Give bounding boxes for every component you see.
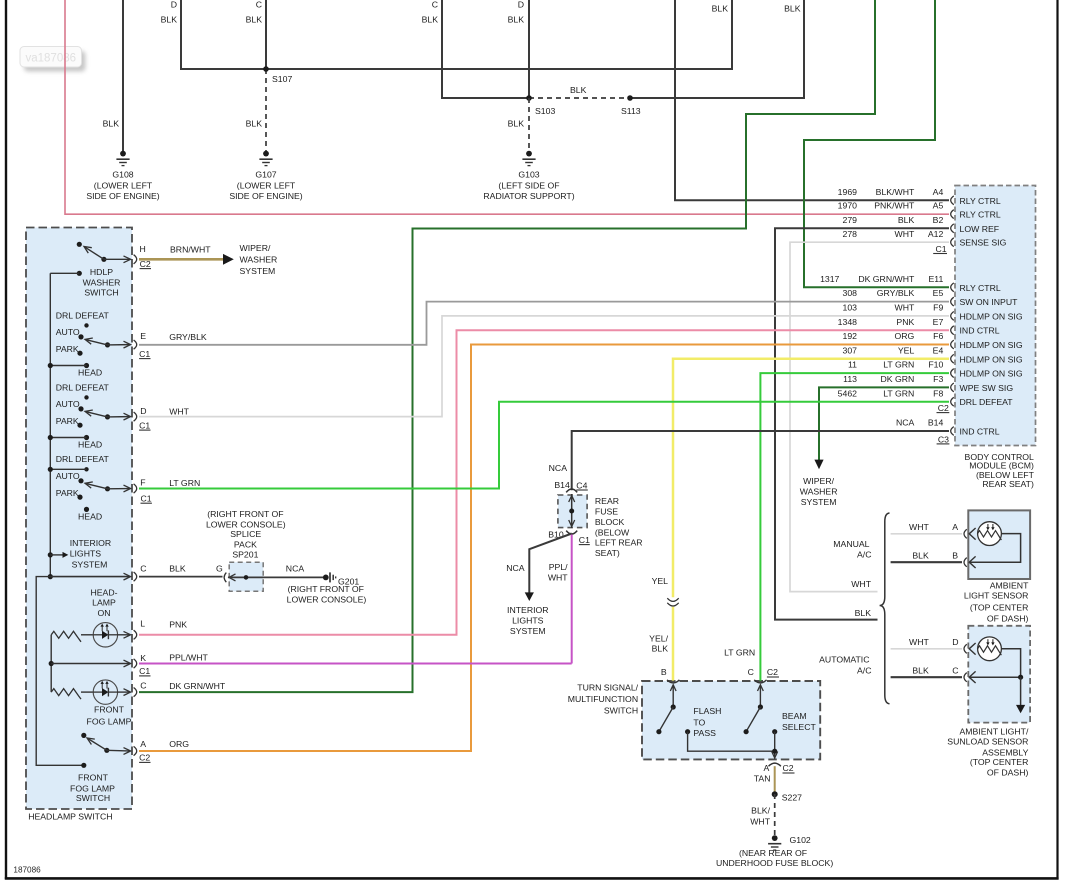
svg-text:SIDE OF ENGINE): SIDE OF ENGINE) (86, 191, 159, 201)
svg-text:1317: 1317 (820, 274, 839, 284)
svg-text:11: 11 (848, 360, 857, 370)
svg-text:C1: C1 (141, 494, 152, 504)
svg-text:G108: G108 (112, 170, 133, 180)
svg-text:BLK: BLK (103, 119, 120, 129)
svg-text:187086: 187086 (13, 865, 41, 874)
svg-text:AMBIENT: AMBIENT (990, 581, 1029, 591)
svg-text:WHT: WHT (909, 522, 929, 532)
svg-text:DRL DEFEAT: DRL DEFEAT (56, 454, 110, 464)
svg-text:DK GRN/WHT: DK GRN/WHT (858, 274, 915, 284)
svg-text:B14: B14 (928, 418, 944, 428)
svg-text:ORG: ORG (169, 739, 189, 749)
svg-text:AMBIENT LIGHT/: AMBIENT LIGHT/ (960, 727, 1029, 737)
svg-text:WHT: WHT (169, 407, 189, 417)
svg-text:HEAD: HEAD (78, 511, 102, 521)
svg-text:F3: F3 (933, 374, 943, 384)
svg-text:C: C (748, 667, 754, 677)
svg-text:YEL: YEL (652, 576, 669, 586)
svg-text:IND CTRL: IND CTRL (960, 427, 1000, 437)
svg-text:1348: 1348 (838, 317, 857, 327)
svg-text:LT GRN: LT GRN (883, 360, 914, 370)
svg-text:BLK: BLK (898, 215, 915, 225)
svg-text:E4: E4 (933, 345, 944, 355)
svg-text:SUNLOAD SENSOR: SUNLOAD SENSOR (947, 737, 1028, 747)
svg-text:F9: F9 (933, 303, 943, 313)
svg-text:SYSTEM: SYSTEM (240, 266, 276, 276)
svg-text:S103: S103 (535, 106, 555, 116)
svg-text:BLK/: BLK/ (751, 805, 770, 815)
svg-text:E: E (140, 331, 146, 341)
svg-text:C1: C1 (139, 666, 150, 676)
svg-text:HEAD: HEAD (78, 367, 102, 377)
svg-text:S113: S113 (621, 106, 641, 116)
svg-text:C: C (140, 563, 146, 573)
svg-text:NCA: NCA (549, 463, 568, 473)
svg-text:AUTO: AUTO (56, 327, 80, 337)
svg-text:192: 192 (843, 331, 858, 341)
svg-text:HEAD-: HEAD- (90, 587, 117, 597)
svg-text:BLK/WHT: BLK/WHT (876, 187, 915, 197)
svg-text:TURN SIGNAL/: TURN SIGNAL/ (577, 682, 638, 692)
svg-text:F6: F6 (933, 331, 943, 341)
svg-text:D: D (518, 0, 524, 10)
svg-text:BLK: BLK (912, 550, 929, 560)
svg-text:HDLP: HDLP (90, 267, 113, 277)
svg-text:C2: C2 (139, 753, 150, 763)
svg-text:FUSE: FUSE (595, 507, 618, 517)
svg-text:B14: B14 (554, 480, 570, 490)
svg-text:LIGHTS: LIGHTS (512, 615, 544, 625)
svg-text:F8: F8 (933, 388, 943, 398)
svg-text:S227: S227 (782, 793, 802, 803)
svg-text:BLK: BLK (570, 85, 587, 95)
svg-text:D: D (952, 637, 958, 647)
svg-text:FLASH: FLASH (693, 706, 721, 716)
svg-text:BLK: BLK (855, 608, 872, 618)
svg-text:OF DASH): OF DASH) (987, 614, 1029, 624)
svg-text:SYSTEM: SYSTEM (510, 626, 546, 636)
svg-text:HDLMP ON SIG: HDLMP ON SIG (960, 340, 1023, 350)
svg-text:C1: C1 (935, 244, 946, 254)
svg-text:S107: S107 (272, 74, 292, 84)
svg-text:BLK: BLK (246, 15, 263, 25)
svg-text:BLK: BLK (169, 563, 186, 573)
svg-text:E11: E11 (928, 274, 943, 284)
svg-text:C: C (256, 0, 262, 10)
svg-text:G102: G102 (790, 835, 811, 845)
svg-text:D: D (171, 0, 177, 10)
svg-text:OF DASH): OF DASH) (987, 767, 1029, 777)
svg-text:NCA: NCA (286, 564, 305, 574)
svg-text:B: B (661, 667, 667, 677)
svg-text:RLY CTRL: RLY CTRL (960, 283, 1001, 293)
svg-text:DRL DEFEAT: DRL DEFEAT (960, 397, 1014, 407)
svg-text:(RIGHT FRONT OF: (RIGHT FRONT OF (288, 584, 364, 594)
svg-text:REAR SEAT): REAR SEAT) (982, 479, 1034, 489)
svg-text:LOWER CONSOLE): LOWER CONSOLE) (287, 595, 367, 605)
svg-text:AUTO: AUTO (56, 471, 80, 481)
svg-text:A5: A5 (933, 201, 944, 211)
svg-text:C1: C1 (139, 420, 150, 430)
svg-text:ASSEMBLY: ASSEMBLY (982, 748, 1028, 758)
svg-text:YEL: YEL (898, 345, 915, 355)
svg-text:WASHER: WASHER (83, 277, 121, 287)
svg-text:C2: C2 (783, 763, 794, 773)
svg-text:NCA: NCA (506, 563, 525, 573)
svg-text:WHT: WHT (548, 573, 568, 583)
svg-text:C1: C1 (579, 535, 590, 545)
svg-text:PASS: PASS (693, 728, 716, 738)
svg-text:BLK: BLK (246, 119, 263, 129)
svg-text:1970: 1970 (838, 201, 857, 211)
svg-text:WHT: WHT (851, 579, 871, 589)
svg-text:DRL DEFEAT: DRL DEFEAT (56, 382, 110, 392)
svg-text:INTERIOR: INTERIOR (70, 538, 112, 548)
svg-text:GRY/BLK: GRY/BLK (169, 332, 207, 342)
svg-text:BLK: BLK (912, 665, 929, 675)
svg-text:E7: E7 (933, 317, 944, 327)
svg-text:TAN: TAN (754, 773, 771, 783)
svg-text:BLK: BLK (508, 15, 525, 25)
svg-text:va187086: va187086 (26, 53, 77, 65)
svg-text:5462: 5462 (838, 388, 857, 398)
svg-text:A/C: A/C (857, 550, 871, 560)
svg-text:GRY/BLK: GRY/BLK (877, 288, 915, 298)
svg-text:HEAD: HEAD (78, 439, 102, 449)
svg-text:LT GRN: LT GRN (169, 478, 200, 488)
svg-text:MULTIFUNCTION: MULTIFUNCTION (568, 694, 638, 704)
svg-text:FRONT: FRONT (94, 704, 125, 714)
svg-text:(LEFT SIDE OF: (LEFT SIDE OF (498, 180, 559, 190)
svg-text:C: C (140, 681, 146, 691)
svg-text:B: B (952, 551, 958, 561)
svg-text:C2: C2 (767, 667, 778, 677)
svg-text:BLK: BLK (712, 4, 729, 14)
svg-text:PPL/: PPL/ (549, 562, 568, 572)
svg-text:YEL/: YEL/ (649, 633, 668, 643)
svg-text:SP201: SP201 (232, 549, 258, 559)
svg-text:PPL/WHT: PPL/WHT (169, 653, 208, 663)
svg-text:B2: B2 (933, 215, 944, 225)
svg-text:BLK: BLK (508, 119, 525, 129)
svg-text:WHT: WHT (909, 637, 929, 647)
svg-text:WHT: WHT (750, 817, 770, 827)
svg-text:SW ON INPUT: SW ON INPUT (960, 297, 1019, 307)
svg-text:308: 308 (843, 288, 858, 298)
svg-text:A: A (764, 763, 770, 773)
svg-text:RADIATOR SUPPORT): RADIATOR SUPPORT) (483, 191, 574, 201)
svg-text:FOG LAMP: FOG LAMP (70, 783, 115, 793)
svg-text:PNK/WHT: PNK/WHT (874, 201, 915, 211)
svg-text:WPE SW SIG: WPE SW SIG (960, 383, 1014, 393)
svg-text:WIPER/: WIPER/ (803, 476, 834, 486)
svg-text:278: 278 (843, 229, 858, 239)
svg-text:LT GRN: LT GRN (883, 388, 914, 398)
svg-text:SEAT): SEAT) (595, 548, 620, 558)
svg-text:PARK: PARK (56, 416, 79, 426)
svg-text:(LOWER LEFT: (LOWER LEFT (237, 180, 296, 190)
svg-text:TO: TO (693, 717, 705, 727)
svg-text:307: 307 (843, 345, 858, 355)
svg-text:SENSE SIG: SENSE SIG (960, 238, 1007, 248)
svg-text:SPLICE: SPLICE (230, 529, 261, 539)
svg-text:PNK: PNK (169, 619, 187, 629)
svg-text:H: H (140, 244, 146, 254)
svg-text:LOWER CONSOLE): LOWER CONSOLE) (206, 519, 286, 529)
svg-text:(RIGHT FRONT OF: (RIGHT FRONT OF (207, 509, 283, 519)
svg-text:C4: C4 (576, 480, 587, 490)
svg-text:113: 113 (843, 374, 857, 384)
svg-text:279: 279 (843, 215, 858, 225)
svg-text:FRONT: FRONT (78, 773, 109, 783)
svg-text:A4: A4 (933, 187, 944, 197)
svg-text:WIPER/: WIPER/ (240, 243, 271, 253)
svg-text:LAMP: LAMP (92, 598, 116, 608)
svg-text:BEAM: BEAM (782, 711, 807, 721)
svg-text:L: L (140, 619, 145, 629)
svg-text:103: 103 (843, 303, 858, 313)
svg-text:HDLMP ON SIG: HDLMP ON SIG (960, 311, 1023, 321)
svg-text:D: D (140, 406, 146, 416)
svg-text:BLOCK: BLOCK (595, 517, 625, 527)
svg-text:K: K (140, 653, 146, 663)
svg-text:BRN/WHT: BRN/WHT (170, 244, 211, 254)
svg-text:BLK: BLK (652, 644, 669, 654)
svg-text:C1: C1 (139, 349, 150, 359)
svg-text:DK GRN: DK GRN (881, 374, 915, 384)
svg-text:BLK: BLK (422, 15, 439, 25)
svg-text:A12: A12 (928, 229, 944, 239)
svg-text:SELECT: SELECT (782, 722, 816, 732)
svg-text:AUTOMATIC: AUTOMATIC (819, 654, 869, 664)
svg-text:(TOP CENTER: (TOP CENTER (970, 757, 1029, 767)
svg-text:AUTO: AUTO (56, 399, 80, 409)
svg-text:PARK: PARK (56, 488, 79, 498)
svg-text:PARK: PARK (56, 344, 79, 354)
svg-text:WHT: WHT (895, 303, 915, 313)
svg-text:SYSTEM: SYSTEM (72, 560, 108, 570)
svg-text:RLY CTRL: RLY CTRL (960, 210, 1001, 220)
svg-text:C: C (952, 666, 958, 676)
svg-text:SYSTEM: SYSTEM (801, 497, 837, 507)
svg-text:WHT: WHT (895, 229, 915, 239)
svg-text:F: F (140, 477, 145, 487)
svg-text:WASHER: WASHER (240, 255, 278, 265)
svg-text:NCA: NCA (896, 418, 915, 428)
svg-text:SIDE OF ENGINE): SIDE OF ENGINE) (229, 191, 302, 201)
svg-text:RLY CTRL: RLY CTRL (960, 196, 1001, 206)
svg-text:(NEAR REAR OF: (NEAR REAR OF (739, 848, 807, 858)
svg-text:ORG: ORG (895, 331, 915, 341)
svg-text:C: C (432, 0, 438, 10)
svg-text:DK GRN/WHT: DK GRN/WHT (169, 681, 226, 691)
svg-text:(LOWER LEFT: (LOWER LEFT (94, 180, 153, 190)
svg-text:ON: ON (97, 608, 110, 618)
svg-text:PNK: PNK (896, 317, 914, 327)
svg-text:G107: G107 (255, 170, 276, 180)
svg-text:REAR: REAR (595, 496, 619, 506)
svg-text:C3: C3 (938, 434, 949, 444)
svg-text:FOG LAMP: FOG LAMP (87, 716, 132, 726)
svg-text:F10: F10 (928, 360, 943, 370)
svg-text:(TOP CENTER: (TOP CENTER (970, 603, 1029, 613)
svg-text:(BELOW: (BELOW (595, 527, 630, 537)
svg-text:A: A (140, 739, 146, 749)
svg-text:BLK: BLK (784, 4, 801, 14)
svg-text:SWITCH: SWITCH (84, 288, 118, 298)
svg-text:PACK: PACK (234, 540, 257, 550)
svg-text:SWITCH: SWITCH (76, 793, 110, 803)
svg-text:HDLMP ON SIG: HDLMP ON SIG (960, 354, 1023, 364)
svg-text:SWITCH: SWITCH (604, 705, 638, 715)
svg-text:C2: C2 (938, 403, 949, 413)
svg-text:BLK: BLK (161, 15, 178, 25)
svg-text:INTERIOR: INTERIOR (507, 605, 549, 615)
svg-text:HDLMP ON SIG: HDLMP ON SIG (960, 369, 1023, 379)
svg-text:IND CTRL: IND CTRL (960, 326, 1000, 336)
svg-text:WASHER: WASHER (800, 487, 838, 497)
svg-text:LIGHT SENSOR: LIGHT SENSOR (964, 591, 1029, 601)
svg-text:HEADLAMP SWITCH: HEADLAMP SWITCH (28, 812, 112, 822)
svg-text:A/C: A/C (857, 666, 871, 676)
svg-text:UNDERHOOD FUSE BLOCK): UNDERHOOD FUSE BLOCK) (716, 858, 833, 868)
svg-text:G103: G103 (518, 170, 539, 180)
svg-text:LT GRN: LT GRN (724, 648, 755, 658)
svg-text:A: A (952, 522, 958, 532)
svg-text:1969: 1969 (838, 187, 857, 197)
svg-text:MANUAL: MANUAL (833, 539, 869, 549)
svg-text:G: G (216, 563, 223, 573)
svg-text:LEFT REAR: LEFT REAR (595, 538, 643, 548)
svg-text:DRL DEFEAT: DRL DEFEAT (56, 310, 110, 320)
svg-text:LIGHTS: LIGHTS (70, 549, 102, 559)
svg-text:LOW REF: LOW REF (960, 224, 1000, 234)
svg-text:E5: E5 (933, 288, 944, 298)
